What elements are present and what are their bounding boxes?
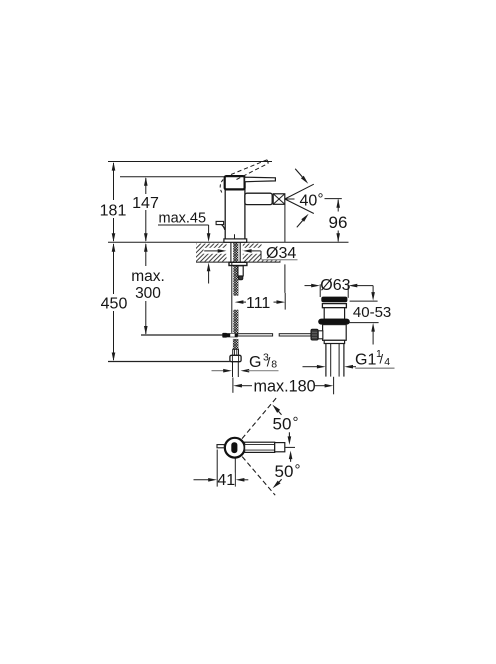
dimension 40-53 <box>349 286 392 345</box>
svg-text:50: 50 <box>273 415 292 434</box>
O-ring gasket <box>318 319 350 325</box>
swing range dashed 50 down <box>242 457 275 496</box>
faucet head (cartridge cap) <box>225 176 245 189</box>
spray angle arrows and 40 deg label <box>295 169 323 228</box>
dimension 111 <box>235 293 286 312</box>
svg-text:max.45: max.45 <box>159 211 207 227</box>
drain plug <box>321 297 347 303</box>
drain tailpipe G1 1/4 <box>326 344 344 377</box>
top view: lever pivot <box>231 442 237 453</box>
rod connector to drain <box>318 331 323 339</box>
svg-text:450: 450 <box>101 296 128 313</box>
dimension max.45 (deck thickness) <box>158 211 210 284</box>
faucet body centerline <box>234 234 236 241</box>
svg-text:300: 300 <box>135 285 161 302</box>
svg-text:/: / <box>380 352 384 367</box>
deck top surface line <box>108 241 349 243</box>
top view: lever handle <box>245 442 295 452</box>
dimension max.180 <box>233 377 334 396</box>
svg-text:40-53: 40-53 <box>353 304 391 321</box>
top view: pop-up knob <box>217 445 224 448</box>
svg-text:Ø34: Ø34 <box>266 245 296 262</box>
pop-up rod knob (side view) <box>216 221 225 229</box>
extension line lever top (147 ref) <box>120 176 245 178</box>
rod knob on drain <box>311 329 318 340</box>
extension line top (181 ref, touches raised lever tip) <box>108 161 272 163</box>
drain flange <box>322 304 346 308</box>
svg-text:G: G <box>249 354 261 371</box>
dimension 147 <box>132 177 160 242</box>
mounting nut <box>238 266 243 280</box>
dimension 96 <box>325 199 349 242</box>
white mask band for hole dim arrows <box>204 244 299 260</box>
drain extension lines <box>320 284 348 298</box>
top view: faucet body circle <box>225 438 245 458</box>
svg-text:147: 147 <box>132 195 159 212</box>
svg-text:°: ° <box>293 414 299 431</box>
drain upper body <box>324 308 344 320</box>
svg-text:°: ° <box>318 191 324 208</box>
extension line below aerator <box>284 205 286 293</box>
faucet base flange <box>224 239 247 242</box>
svg-text:Ø63: Ø63 <box>320 277 350 294</box>
svg-text:111: 111 <box>246 295 270 312</box>
svg-text:41: 41 <box>217 472 235 489</box>
lever handle raised (dashed) <box>220 160 268 193</box>
svg-text:4: 4 <box>384 356 390 368</box>
threaded shank through deck <box>231 242 240 262</box>
dimension 181 <box>99 162 127 242</box>
washer under deck <box>229 262 247 265</box>
svg-text:50: 50 <box>275 462 294 481</box>
pop-up rod to drain <box>238 334 311 336</box>
450 bottom reference line <box>108 361 230 363</box>
threaded stub below nut <box>233 362 239 377</box>
svg-text:/: / <box>267 355 271 370</box>
lower 50 deg annotation <box>273 451 301 489</box>
deck bottom line <box>196 261 281 263</box>
svg-text:G1: G1 <box>355 352 376 369</box>
svg-text:181: 181 <box>100 203 127 220</box>
svg-text:max.: max. <box>131 268 165 285</box>
svg-text:96: 96 <box>329 213 348 232</box>
aerator with cross <box>273 194 294 205</box>
swing range dashed 50 up <box>242 398 276 439</box>
pop-up tee fitting <box>222 333 237 338</box>
hose end nut G3/8 <box>230 355 241 361</box>
label G 3/8 <box>212 352 279 373</box>
label G1 1/4 <box>303 348 395 369</box>
lever handle (horizontal position) <box>245 177 276 182</box>
deck slab hatched right <box>243 244 281 262</box>
dimension 450 (hose length reference) <box>100 243 128 361</box>
spout <box>245 193 272 204</box>
upper 50 deg annotation <box>272 405 298 445</box>
svg-text:40: 40 <box>300 192 318 209</box>
dimension Ø63 <box>305 277 374 294</box>
svg-text:max.180: max.180 <box>254 378 316 396</box>
dimension Ø34 (hole) <box>204 245 297 262</box>
svg-text:8: 8 <box>271 359 277 371</box>
supply hose upper segment <box>232 262 239 333</box>
drain lower body <box>323 325 347 344</box>
deck slab hatched left <box>196 244 227 262</box>
svg-text:°: ° <box>295 462 301 479</box>
spray angle rays 40 degrees <box>285 184 314 213</box>
max300 reference line <box>141 334 223 336</box>
dimension max.300 <box>128 243 166 335</box>
hose below tee <box>233 339 239 355</box>
dimension 41 <box>194 450 249 490</box>
faucet body column <box>225 187 245 239</box>
